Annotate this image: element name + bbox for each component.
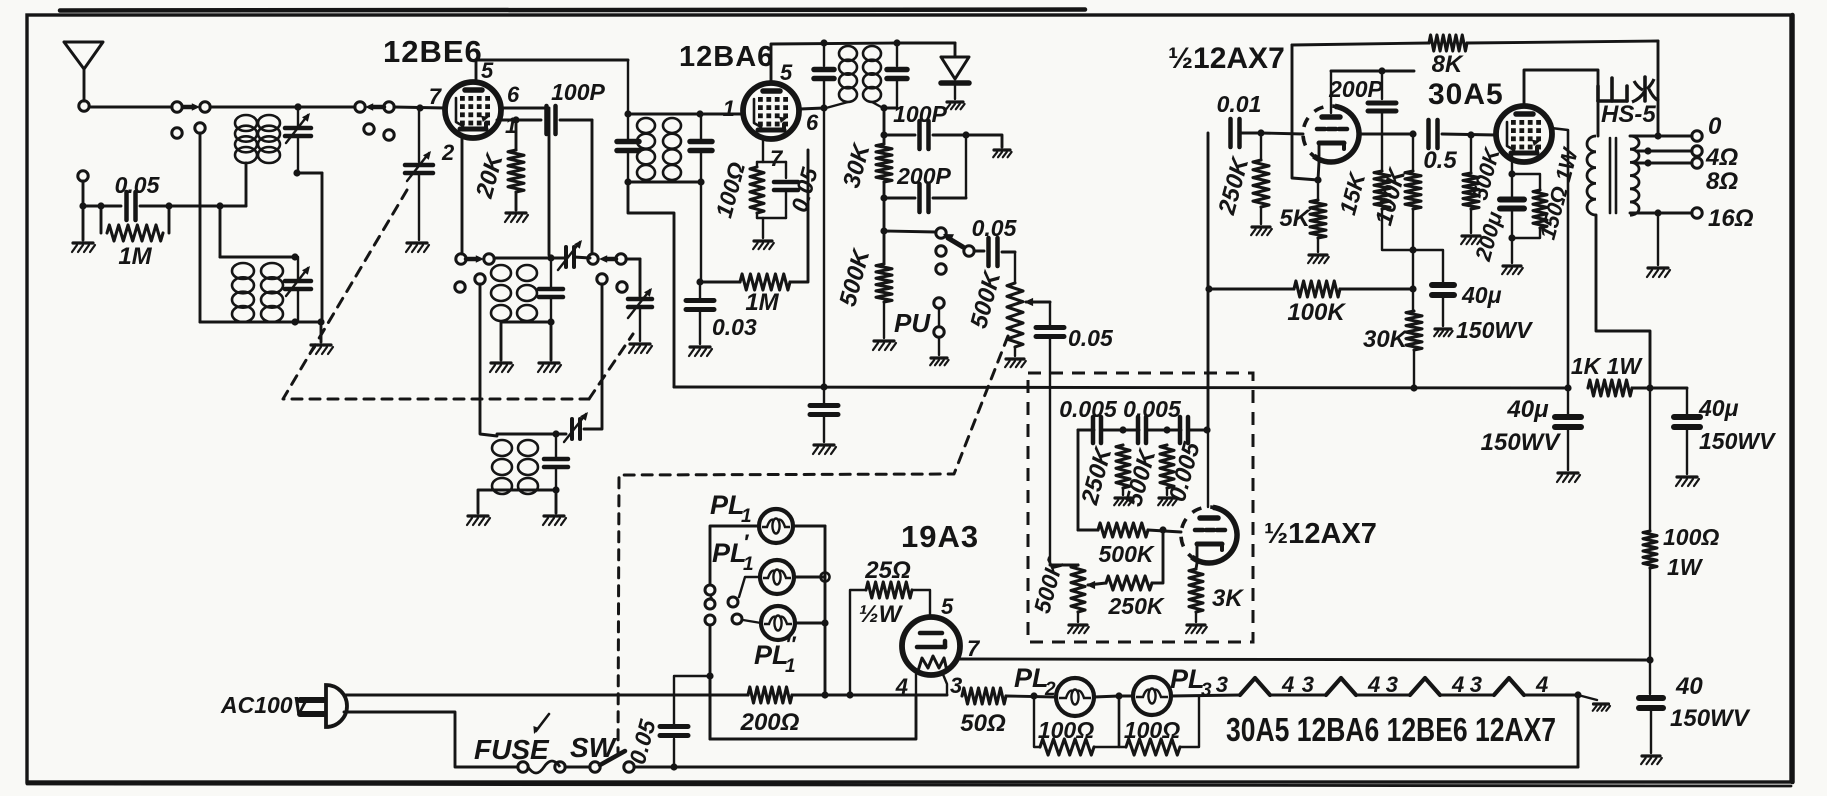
svg-text:½12AX7: ½12AX7 xyxy=(1168,42,1285,75)
label 1M xyxy=(118,243,152,270)
svg-text:½12AX7: ½12AX7 xyxy=(1264,518,1377,550)
ground (volume) xyxy=(1005,359,1026,367)
svg-text:SW: SW xyxy=(570,732,618,763)
svg-text:PL: PL xyxy=(712,538,747,568)
ground (band cap) xyxy=(543,490,566,525)
capacitor 0.01 xyxy=(1231,119,1262,147)
label AC100V xyxy=(220,692,310,718)
capacitor 40 150WV xyxy=(1639,660,1663,753)
ground terminal xyxy=(78,171,88,203)
label 0.5 xyxy=(1423,147,1457,174)
node 1M left xyxy=(696,278,703,285)
capacitor (B+ bypass) xyxy=(810,387,838,442)
label 30A5 xyxy=(1428,78,1504,111)
capacitor 0.005 b xyxy=(1138,417,1146,443)
resistor 250K (tone fb) xyxy=(1086,530,1163,590)
antenna xyxy=(64,42,103,101)
wire rail down to OPT xyxy=(1657,41,1660,136)
label 500K (tone) xyxy=(1120,445,1161,509)
ground (tone 500K) xyxy=(1158,498,1176,505)
svg-text:100Ω: 100Ω xyxy=(1038,717,1094,743)
svg-text:200Ω: 200Ω xyxy=(740,709,800,736)
label 150WV xyxy=(1456,317,1533,343)
pin 6 label xyxy=(806,110,819,135)
svg-text:7: 7 xyxy=(967,636,981,661)
svg-text:2: 2 xyxy=(1044,679,1056,700)
svg-text:1: 1 xyxy=(785,656,796,677)
wire xyxy=(1270,694,1326,697)
resistor 200ohm xyxy=(345,687,947,703)
terminal 0 xyxy=(1692,131,1702,141)
wire V3b cathode xyxy=(1196,563,1197,569)
wire AC top xyxy=(345,694,748,697)
IF1 secondary coil xyxy=(663,118,681,180)
node IF2 bottom xyxy=(880,104,887,111)
svg-text:PL: PL xyxy=(710,490,745,520)
wire 100P to ground xyxy=(966,135,1002,147)
node antenna coil top xyxy=(294,103,301,110)
node band tank top xyxy=(552,430,559,437)
capacitor 200P xyxy=(884,135,966,212)
B+ bus wire xyxy=(674,387,1568,388)
node IF1 top-left xyxy=(624,110,631,117)
label 500K (30A5 grid) xyxy=(1467,143,1505,202)
capacitor 200u xyxy=(1500,174,1524,238)
wire to 12BE6 pin7 xyxy=(394,107,445,108)
ground (30A5 grid) xyxy=(1461,236,1482,244)
svg-text:6: 6 xyxy=(806,110,819,135)
spare contact with lead xyxy=(195,123,205,322)
tuning gang capacitor C2 xyxy=(628,288,652,341)
tone circuit dashed box xyxy=(1028,373,1253,642)
wire heater return xyxy=(1577,695,1580,767)
label PL1p xyxy=(712,530,754,575)
wire to antenna coil xyxy=(210,106,355,109)
tube V2 12BA6 xyxy=(743,83,799,139)
wire PL1 left xyxy=(710,526,759,584)
resistor 100K (plate) xyxy=(1405,134,1421,289)
pin 1 label xyxy=(723,96,735,121)
lamp selector contacts xyxy=(705,585,742,625)
node 15K junction xyxy=(1409,246,1416,253)
pin 7 label xyxy=(429,84,443,109)
resistor 100K (coupling) xyxy=(1209,281,1413,297)
pin 7 label xyxy=(770,146,784,171)
node B+ main xyxy=(1564,384,1571,391)
label 200ohm xyxy=(740,709,800,736)
wire wiper down xyxy=(1049,302,1051,565)
wire selector common xyxy=(709,626,712,739)
wire det to switch xyxy=(884,231,936,232)
output transformer secondary xyxy=(1630,136,1639,215)
node osc tank top xyxy=(547,254,554,261)
svg-text:1M: 1M xyxy=(118,243,152,270)
IF2 bottom wire xyxy=(883,107,897,110)
svg-text:40μ: 40μ xyxy=(1698,395,1739,421)
resistor 250K (AF grid) xyxy=(1253,133,1269,224)
svg-text:0.5: 0.5 xyxy=(1423,147,1457,174)
tap 8ohm xyxy=(1636,159,1692,166)
pin 5 label xyxy=(481,58,494,83)
svg-text:3: 3 xyxy=(1201,680,1212,701)
wire secondary top xyxy=(1630,135,1692,138)
tube V4 30A5 xyxy=(1496,106,1552,162)
IF1 top bus xyxy=(628,113,700,116)
node tone a xyxy=(1119,426,1126,433)
svg-text:30A5 12BA6 12BE6 12AX7: 30A5 12BA6 12BE6 12AX7 xyxy=(1226,711,1556,748)
capacitor 100P (osc grid) xyxy=(547,106,593,134)
svg-text:150WV: 150WV xyxy=(1456,317,1533,343)
svg-text:40μ: 40μ xyxy=(1506,396,1549,423)
label half 12AX7 xyxy=(1168,42,1285,75)
tone pot 500K xyxy=(1050,565,1085,622)
wire pin4 xyxy=(915,673,917,695)
pin 3 label (19A3) xyxy=(950,673,962,698)
terminal 16ohm xyxy=(1692,208,1702,218)
tuning gang capacitor C1 xyxy=(405,108,433,240)
ground (0.03) xyxy=(689,347,712,356)
svg-text:FUSE: FUSE xyxy=(474,734,550,765)
ground (antenna) xyxy=(72,206,95,252)
svg-text:100P: 100P xyxy=(551,79,605,105)
label 25ohm xyxy=(864,557,911,584)
node lamp bus xyxy=(821,691,828,698)
svg-text:16Ω: 16Ω xyxy=(1708,205,1754,232)
resistor 1K 1W xyxy=(1588,380,1650,396)
PU jack xyxy=(934,298,944,355)
svg-text:PL: PL xyxy=(1170,664,1205,694)
label 500K (tone pot) xyxy=(1029,555,1069,616)
node IF1 top-right xyxy=(696,110,703,117)
selector switch contacts xyxy=(936,228,974,274)
antenna coil T1 secondary xyxy=(258,115,280,163)
resistor 3K xyxy=(1189,569,1203,622)
pin 2 label xyxy=(441,140,455,165)
label HS-5 xyxy=(1601,101,1656,128)
label 150ohm 1W xyxy=(1535,144,1584,242)
label 4ohm xyxy=(1705,144,1738,171)
svg-text:40: 40 xyxy=(1675,673,1703,700)
label 150WV (c) xyxy=(1670,705,1751,732)
tap 4ohm xyxy=(1636,147,1692,154)
node tone b xyxy=(1163,426,1170,433)
volume wiper xyxy=(1024,298,1050,306)
gang link dashed line xyxy=(283,190,633,399)
wire tone left leg xyxy=(1077,430,1080,530)
capacitor 0.005 c xyxy=(1180,417,1188,443)
ground (200u) xyxy=(1502,238,1523,274)
svg-text:6: 6 xyxy=(507,82,520,107)
label 0.05 (12BA6 cathode) xyxy=(786,164,823,215)
terminal 8ohm xyxy=(1692,158,1702,168)
wire V3a plate xyxy=(1331,71,1414,113)
wire osc tank top xyxy=(494,257,566,260)
IF2 primary cap leg xyxy=(814,43,834,387)
node osc tank bottom xyxy=(547,318,554,325)
label 0.03 xyxy=(712,314,757,340)
node 100P right xyxy=(962,131,969,138)
svg-text:0.005 0.005: 0.005 0.005 xyxy=(1059,396,1182,422)
osc coil primary xyxy=(491,265,511,321)
resistor 100 ohm (12BA6 cathode) xyxy=(750,162,764,218)
osc coil secondary xyxy=(517,265,537,321)
label 250K (tone fb) xyxy=(1108,593,1165,619)
svg-text:3: 3 xyxy=(1470,672,1482,697)
wire primary bottom to B+ xyxy=(1596,215,1650,388)
capacitor 0.05 (antenna) xyxy=(83,192,246,220)
wire xyxy=(1356,694,1410,697)
lamp PL3 xyxy=(1133,677,1171,715)
wire IF2 to detector xyxy=(883,108,886,144)
label 15K xyxy=(1334,169,1370,218)
node tone grid xyxy=(1159,526,1166,533)
svg-text:1: 1 xyxy=(723,96,735,121)
B+ rail top xyxy=(1292,43,1429,45)
wire 30A5 plate xyxy=(1524,70,1598,136)
wire 30A5 cathode xyxy=(1511,152,1513,174)
svg-text:3: 3 xyxy=(1302,672,1314,697)
resistor 500K (30A5 grid) xyxy=(1463,135,1479,233)
wire V3b plate to network xyxy=(1207,430,1209,507)
node 30A5 grid xyxy=(1467,131,1474,138)
svg-text:25Ω: 25Ω xyxy=(864,557,911,584)
heater wire pin7 xyxy=(958,659,1650,660)
svg-text:7: 7 xyxy=(770,146,784,171)
svg-text:4: 4 xyxy=(1281,672,1294,697)
label PL3 xyxy=(1170,664,1212,701)
tube V3b half 12AX7 (tone) xyxy=(1181,507,1237,563)
selector arrow xyxy=(708,594,714,600)
svg-text:200P: 200P xyxy=(896,163,951,189)
tube V1 12BE6 xyxy=(445,82,501,138)
svg-text:5: 5 xyxy=(780,60,793,85)
label 12BE6 xyxy=(383,34,483,69)
svg-text:12BA6: 12BA6 xyxy=(679,41,774,73)
label 40u (a) xyxy=(1506,396,1549,423)
tube V3a half 12AX7 xyxy=(1303,106,1359,162)
capacitor 0.05 (12BA6 cathode) xyxy=(774,162,798,218)
wire det chain xyxy=(883,182,886,264)
svg-text:8Ω: 8Ω xyxy=(1706,168,1738,195)
label 12BA6 xyxy=(679,41,774,73)
label 1W xyxy=(1667,554,1704,580)
wire to diode xyxy=(897,43,955,57)
terminal 4ohm xyxy=(1692,146,1702,156)
node PL2 left xyxy=(1030,692,1037,699)
trimmer capacitor T1 xyxy=(285,107,311,173)
wire AC bottom xyxy=(344,712,518,767)
svg-text:200P: 200P xyxy=(1328,76,1383,102)
capacitor 0.03 xyxy=(686,282,714,344)
node IF2 feed xyxy=(820,39,827,46)
label FUSE xyxy=(474,734,550,765)
label 1K 1W xyxy=(1571,353,1644,379)
node heater end xyxy=(1574,691,1581,698)
svg-text:3: 3 xyxy=(1216,672,1228,697)
label 100 ohm (12BA6 cathode) xyxy=(710,159,750,220)
wire grid leg xyxy=(1207,133,1210,430)
node V1 grid xyxy=(416,104,423,111)
ground (3K) xyxy=(1186,625,1207,633)
svg-text:AC100V: AC100V xyxy=(220,692,310,718)
label 30K (decoupling) xyxy=(1363,326,1409,353)
pin 5 label (19A3) xyxy=(941,594,954,619)
node cathode bottom xyxy=(1508,234,1515,241)
wire T1 primary bottom xyxy=(245,163,248,206)
node bypass xyxy=(820,383,827,390)
label half 12AX7 (tone) xyxy=(1264,518,1377,550)
IF1 primary cap leg xyxy=(617,60,639,182)
svg-text:½W: ½W xyxy=(859,601,904,628)
label 5K xyxy=(1279,205,1311,232)
label 200u xyxy=(1470,209,1507,265)
node 200P xyxy=(1378,67,1385,74)
AVC wire xyxy=(628,182,674,387)
svg-text:0.03: 0.03 xyxy=(712,314,757,340)
wire pin4 loop xyxy=(710,676,916,739)
label 100ohm xyxy=(1663,524,1719,550)
pin 7 label (19A3) xyxy=(967,636,981,661)
capacitor 40u 150WV (a) xyxy=(1555,388,1581,470)
lamp PL1pp xyxy=(761,606,795,640)
wire xyxy=(1094,696,1119,697)
antenna coil T1 primary xyxy=(235,115,257,163)
ground (diode) xyxy=(946,102,964,109)
B+ rail to output transformer xyxy=(1467,41,1658,43)
IF2 primary coil xyxy=(826,46,857,108)
node xyxy=(216,202,223,209)
spare contact xyxy=(617,282,627,292)
ground (osc coil) xyxy=(490,322,513,372)
wire secondary bottom xyxy=(1630,212,1692,215)
ground (40u a) xyxy=(1557,473,1580,482)
RF coil T2 secondary xyxy=(261,263,283,322)
wire PL1pp left xyxy=(743,620,761,623)
label PL1 xyxy=(710,490,752,527)
selector lever xyxy=(943,234,963,247)
pin 4 label (19A3) xyxy=(895,674,908,699)
trimmer band tank xyxy=(564,412,588,442)
switch SW xyxy=(590,751,634,772)
label 100P xyxy=(551,79,605,105)
label 30K (det) xyxy=(838,140,876,191)
wire V1 pin2 to osc switch xyxy=(461,138,464,254)
lamp PL1p xyxy=(760,560,794,594)
svg-text:4: 4 xyxy=(1367,672,1380,697)
resistor 250K (tone) xyxy=(1116,445,1130,495)
wire 100P to osc switch xyxy=(591,120,594,253)
wire osc tank bottom xyxy=(501,321,551,324)
pin 6 label xyxy=(507,82,520,107)
resistor 30K (decoupling) xyxy=(1406,289,1422,388)
svg-text:19A3: 19A3 xyxy=(901,519,979,554)
svg-text:150WV: 150WV xyxy=(1481,429,1562,456)
IF1 primary coil xyxy=(637,118,655,180)
label 0.05 xyxy=(115,172,161,198)
label PL2 xyxy=(1014,663,1056,700)
svg-text:1M: 1M xyxy=(745,289,779,316)
label 250K (tone) xyxy=(1076,443,1118,508)
svg-text:2: 2 xyxy=(441,140,455,165)
wire T2 bottom bus xyxy=(200,321,321,324)
fuse pointer xyxy=(533,714,549,734)
capacitor 40u 150WV (b) xyxy=(1650,388,1700,474)
pin 5 label xyxy=(780,60,793,85)
node PL bus xyxy=(821,573,830,627)
ground (AF grid) xyxy=(1251,227,1272,235)
capacitor 0.05 (tone feed) xyxy=(1036,328,1064,337)
svg-text:0.01: 0.01 xyxy=(1217,91,1262,117)
node xyxy=(1409,285,1416,292)
wire antenna to band switch xyxy=(89,106,172,109)
svg-text:0.05: 0.05 xyxy=(972,215,1018,241)
label 100ohm (PL2) xyxy=(1038,717,1094,743)
node det top xyxy=(880,131,887,138)
ground (PU) xyxy=(930,358,948,365)
label 500K (det load) xyxy=(834,245,875,309)
resistor 15K xyxy=(1374,171,1413,250)
label 150WV (b) xyxy=(1699,428,1776,454)
ground (40u) xyxy=(1434,329,1452,336)
capacitor 0.005 a xyxy=(1093,417,1101,443)
label 250K (AF grid) xyxy=(1213,153,1255,218)
label 100P (det) xyxy=(893,101,947,127)
resistor 1M (antenna) xyxy=(97,202,172,241)
label 3K xyxy=(1212,585,1244,612)
wire rail to cathode node xyxy=(1292,45,1318,180)
volume-switch link dashed line xyxy=(618,336,1008,752)
label 100K (plate) xyxy=(1370,164,1411,228)
node T1 top xyxy=(294,103,301,110)
wire 30A5 screen xyxy=(1551,128,1568,388)
label 100ohm (PL3) xyxy=(1124,717,1180,743)
label 40u xyxy=(1461,282,1502,308)
RF coil T2 primary xyxy=(232,263,254,322)
node 0.05 line xyxy=(670,763,677,770)
spare contact xyxy=(384,130,394,140)
ground (12BA6 cathode) xyxy=(753,218,774,249)
capacitor 100P (det) xyxy=(884,121,966,149)
resistor 100ohm 1W xyxy=(1643,388,1657,660)
node band tank bottom xyxy=(552,486,559,493)
label Sansui xyxy=(1598,77,1659,102)
node tone c xyxy=(1203,426,1210,433)
tube V5 19A3 xyxy=(902,617,960,675)
wire bottom bus xyxy=(634,766,1578,769)
trimmer capacitor T2 xyxy=(285,257,311,322)
svg-text:0.05: 0.05 xyxy=(115,172,161,198)
svg-text:5: 5 xyxy=(941,594,954,619)
node cathode xyxy=(1314,176,1321,183)
resistor 500K (det load) xyxy=(876,264,892,338)
AC plug xyxy=(300,685,347,727)
diode (detector) xyxy=(941,57,969,99)
svg-text:50Ω: 50Ω xyxy=(960,710,1006,737)
wire PL1p left xyxy=(739,577,760,597)
resistor 500K (tone) xyxy=(1160,445,1174,495)
svg-text:PL: PL xyxy=(1014,663,1049,693)
svg-text:30A5: 30A5 xyxy=(1428,78,1504,111)
label 500K (tone series) xyxy=(1099,541,1155,567)
spare contact xyxy=(364,124,374,134)
svg-text:100Ω: 100Ω xyxy=(1663,524,1719,550)
node 100K AF xyxy=(1205,285,1212,292)
wire xyxy=(1440,694,1494,697)
ground (RF coil) xyxy=(310,322,333,354)
capacitor 40u 150WV (decoupling) xyxy=(1413,250,1454,326)
node lamp common xyxy=(706,672,713,679)
wire T1 bottom to gang xyxy=(297,173,322,322)
